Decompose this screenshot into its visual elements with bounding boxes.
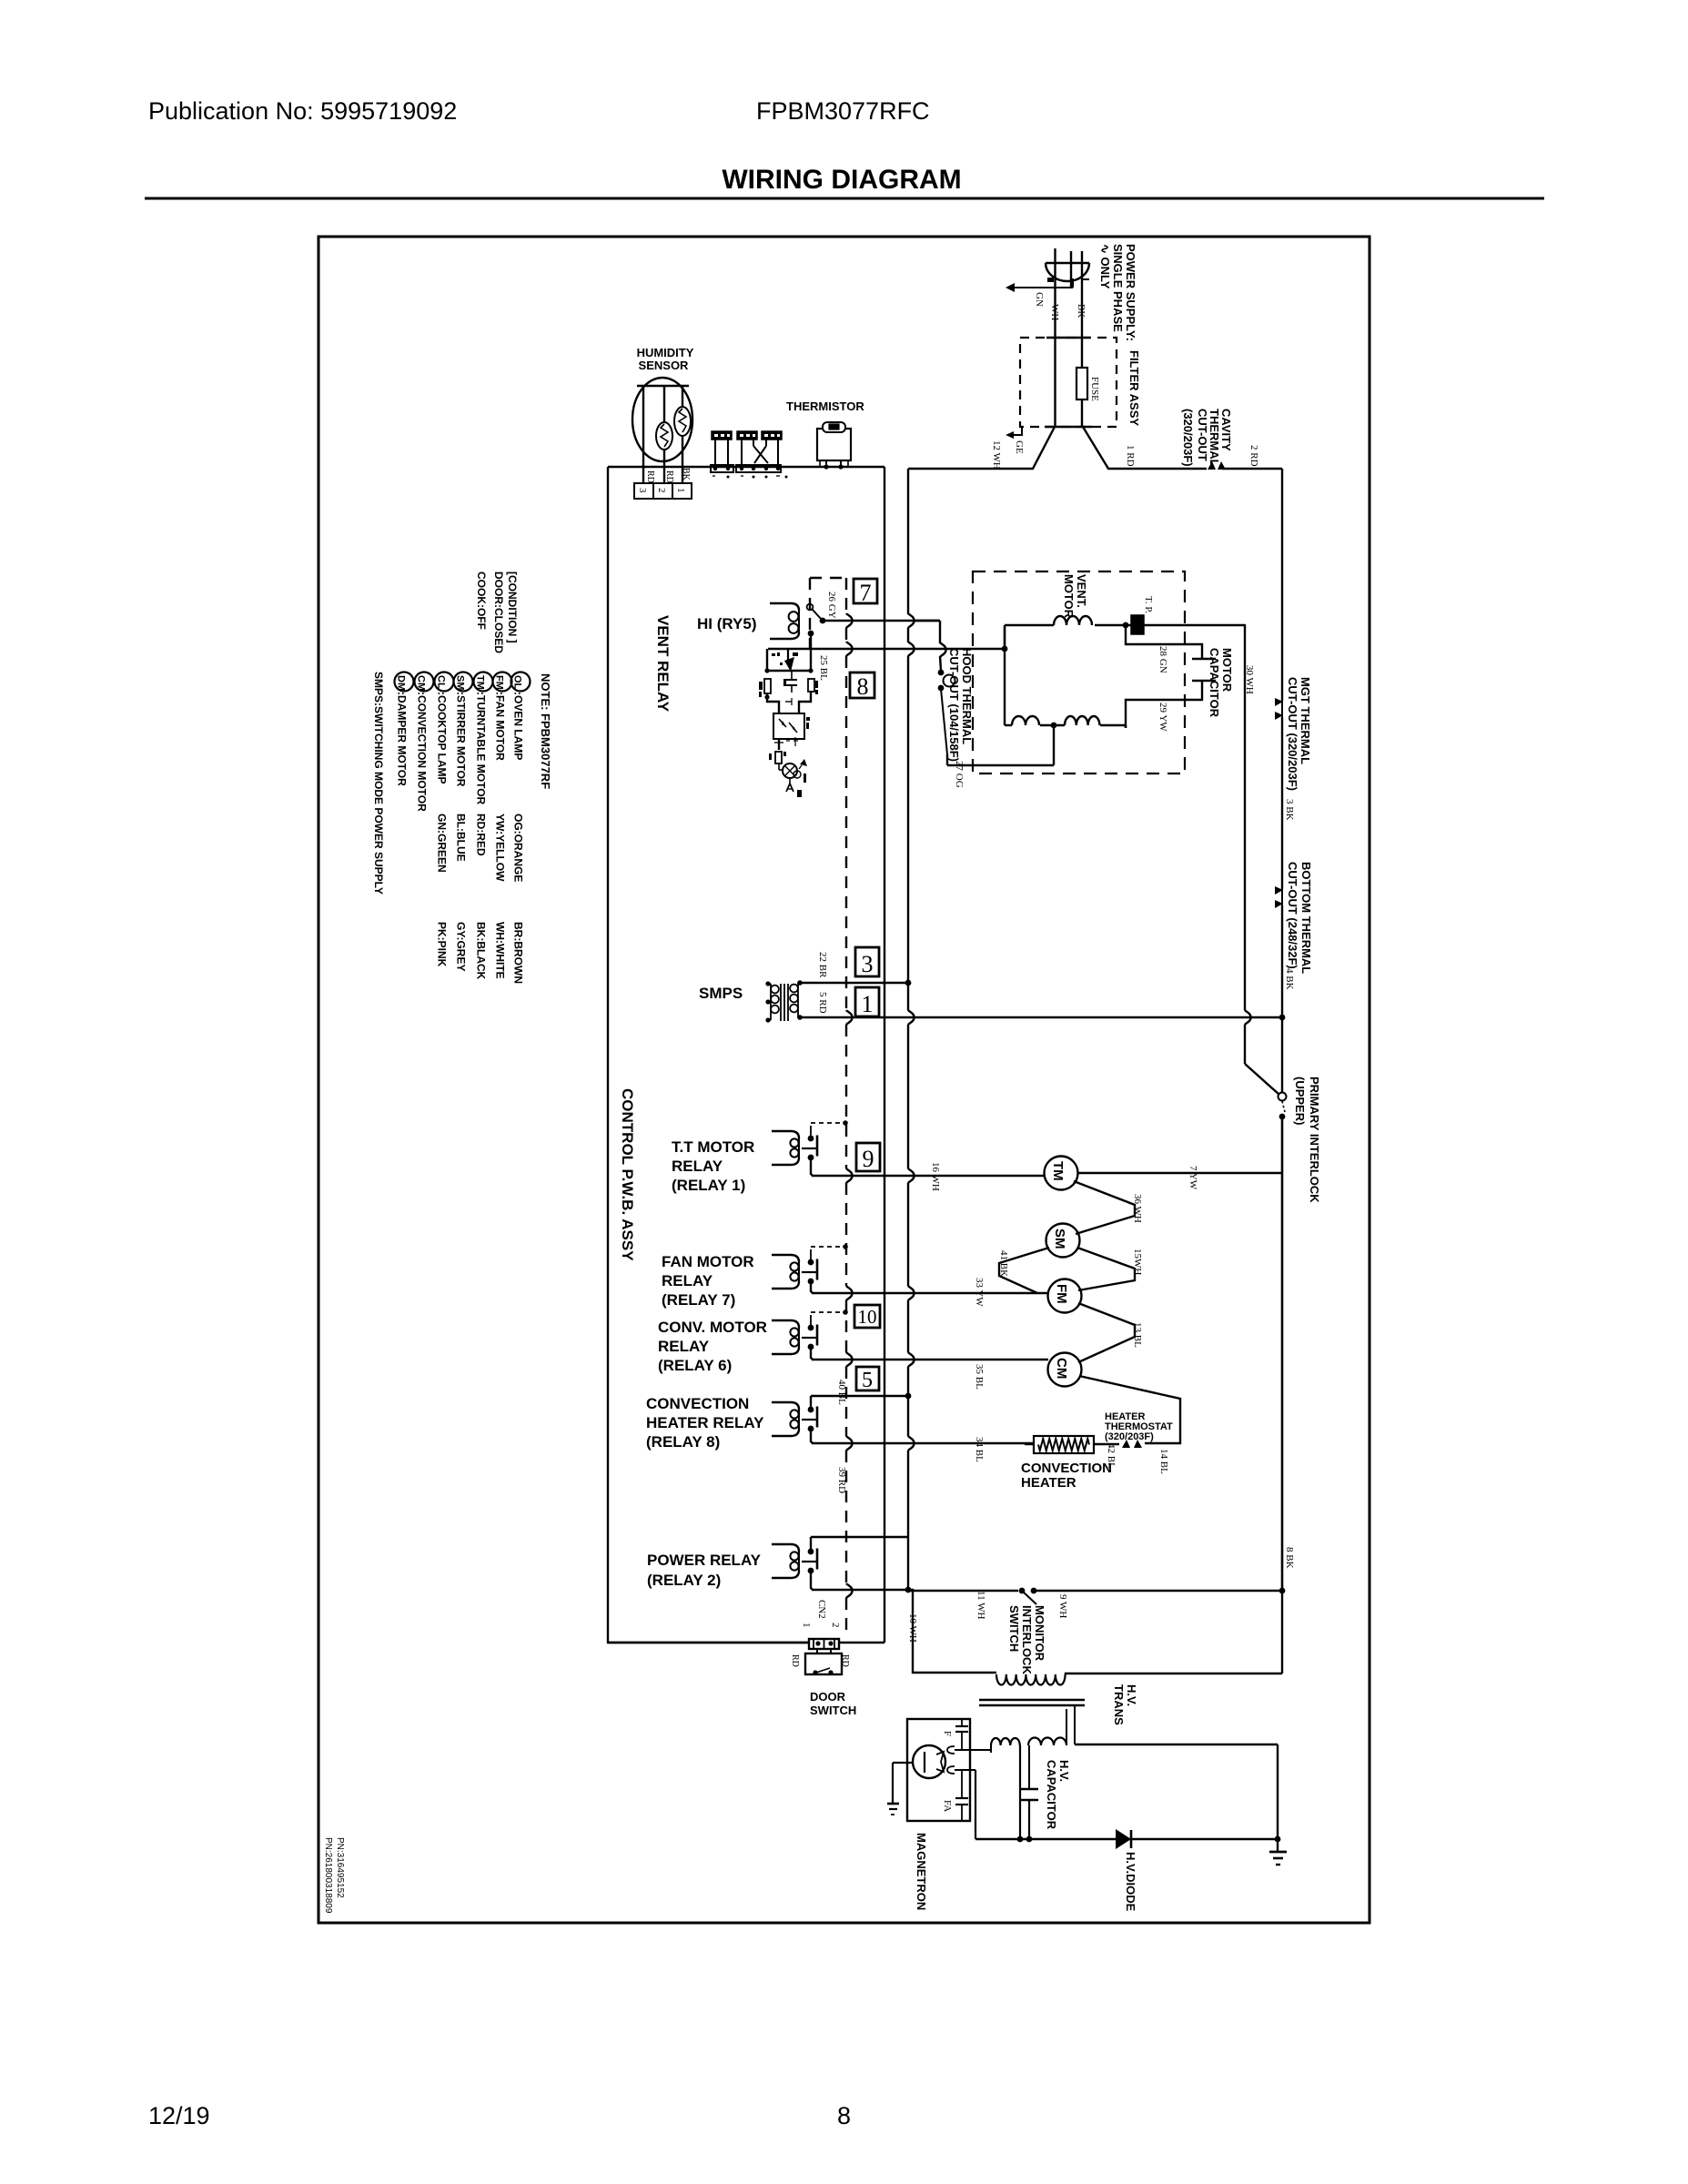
- label CUT-OUT (104/158F): [947, 648, 961, 762]
- svg-text:(RELAY 8): (RELAY 8): [646, 1433, 720, 1451]
- label MONITOR: [1033, 1605, 1046, 1662]
- svg-text:22 BR: 22 BR: [817, 952, 828, 978]
- svg-text:PRIMARY INTERLOCK: PRIMARY INTERLOCK: [1308, 1077, 1321, 1203]
- resistor R1: [759, 679, 771, 697]
- svg-text:10: 10: [858, 1306, 877, 1328]
- svg-text:∿ ONLY: ∿ ONLY: [1098, 244, 1112, 289]
- wire TP to 30WH corner: [1144, 624, 1245, 626]
- wire 1 RD from filter: [1083, 427, 1207, 469]
- label pin 2: [656, 488, 667, 493]
- svg-text:8: 8: [857, 673, 869, 700]
- primary interlock blade: [1282, 1101, 1285, 1112]
- relay RY2 power relay: [772, 1537, 817, 1590]
- footer page number 8: [837, 2102, 851, 2129]
- label HEATER THERMOSTAT (320/203F): [1105, 1411, 1173, 1442]
- svg-text:CUT-OUT (104/158F): CUT-OUT (104/158F): [947, 648, 961, 762]
- humidity sensor connector 3-2-1: [634, 483, 692, 499]
- vent motor left wire: [1004, 627, 1006, 725]
- svg-text:SM: SM: [455, 675, 466, 691]
- svg-text::DAMPER MOTOR: :DAMPER MOTOR: [396, 692, 409, 786]
- connector plug CN-B: [737, 431, 757, 465]
- label FUSE: [1089, 377, 1100, 401]
- humidity sensor wire 2: [663, 386, 665, 483]
- right rail wire lower: [1281, 1117, 1284, 1591]
- label 34 BL: [974, 1437, 985, 1462]
- relay RY7 fan motor relay: [772, 1247, 817, 1293]
- label H.V. CAPACITOR: [1045, 1760, 1071, 1830]
- label GE: [1014, 440, 1025, 454]
- label RD left: [790, 1654, 800, 1667]
- svg-text:CM: CM: [416, 675, 427, 691]
- svg-text:YW:YELLOW: YW:YELLOW: [494, 814, 507, 882]
- svg-text:BL:BLUE: BL:BLUE: [455, 814, 468, 862]
- right rail wire mid: [1281, 717, 1283, 889]
- label CN2 pin 1: [801, 1623, 812, 1628]
- magnetron filament wire bottom: [955, 1770, 975, 1839]
- driver top left branch: [766, 649, 768, 671]
- svg-text:4 BK: 4 BK: [1284, 968, 1295, 990]
- wire 16 WH: [812, 1175, 1045, 1177]
- HV secondary winding: [1028, 1709, 1066, 1789]
- label pin 3: [637, 488, 648, 493]
- driver misc pad: [797, 773, 806, 797]
- svg-text:2: 2: [656, 488, 667, 493]
- connector plug CN-A: [711, 431, 733, 479]
- svg-text::TURNTABLE MOTOR: :TURNTABLE MOTOR: [475, 692, 488, 805]
- vent motor top wire: [1005, 625, 1054, 627]
- label (320/203F): [1181, 409, 1195, 467]
- svg-text:GN:GREEN: GN:GREEN: [436, 814, 449, 873]
- label GN: [1034, 292, 1045, 307]
- label CONV. MOTOR RELAY (RELAY 6): [658, 1319, 767, 1374]
- svg-text:30 WH: 30 WH: [1244, 665, 1255, 694]
- svg-text:9: 9: [863, 1146, 874, 1172]
- humidity sensor wire 3: [642, 386, 644, 483]
- monitor interlock contacts: [1019, 1588, 1037, 1594]
- svg-text:SM: SM: [1052, 1228, 1067, 1249]
- legend row DM damper motor: [395, 672, 414, 787]
- label CAVITY: [1219, 409, 1233, 451]
- label CONVECTION HEATER RELAY (RELAY 8): [646, 1395, 764, 1451]
- svg-text:RD: RD: [840, 1654, 850, 1667]
- svg-text:12/19: 12/19: [148, 2102, 210, 2129]
- svg-text:VENT.: VENT.: [1075, 574, 1088, 608]
- RY1 dashed control line: [811, 1120, 848, 1126]
- heater thermostat symbol: [1122, 1440, 1142, 1448]
- motor CM convection: [1048, 1353, 1082, 1387]
- magnetron box: [907, 1719, 970, 1821]
- svg-text:H.V.DIODE: H.V.DIODE: [1124, 1852, 1137, 1912]
- legend row CM convection motor: [415, 672, 434, 813]
- label (UPPER): [1293, 1077, 1307, 1125]
- MGT thermal cut-out symbol: [1275, 698, 1283, 720]
- label RD wire 2: [664, 470, 674, 483]
- label 5 RD: [817, 992, 828, 1014]
- svg-text:POWER SUPPLY:: POWER SUPPLY:: [1124, 244, 1137, 341]
- label MOTOR CAPACITOR: [1208, 648, 1234, 718]
- label CUT-OUT (248/32F): [1286, 862, 1299, 969]
- label CONTROL P.W.B. ASSY: [619, 1088, 636, 1261]
- label 2 RD: [1248, 445, 1259, 467]
- motor SM stirrer: [1046, 1224, 1080, 1258]
- svg-text:CONVECTION: CONVECTION: [1021, 1461, 1112, 1476]
- label SENSOR: [639, 359, 690, 372]
- wire 41 BK SM to FM feed: [999, 1248, 1049, 1293]
- humidity sensor top chord: [637, 385, 689, 387]
- svg-text:2: 2: [830, 1623, 841, 1628]
- footer date 12/19: [148, 2102, 210, 2129]
- HV transformer primary: [996, 1673, 1282, 1684]
- RY6 dashed control line: [811, 1309, 848, 1315]
- wire 30 WH diagonal to interlock: [1245, 1064, 1279, 1095]
- svg-text:FILTER ASSY: FILTER ASSY: [1127, 350, 1141, 426]
- connector strip B-C: [736, 465, 788, 479]
- node SMPS 22BR to rail: [905, 980, 912, 986]
- svg-text:7 YW: 7 YW: [1188, 1166, 1198, 1190]
- svg-text::CONVECTION MOTOR: :CONVECTION MOTOR: [416, 692, 429, 812]
- wire CN2 pin1 run: [608, 1642, 809, 1643]
- hood cutout blade: [941, 689, 947, 765]
- thermal protector T.P.: [1131, 615, 1144, 634]
- svg-text:(RELAY 7): (RELAY 7): [662, 1291, 735, 1309]
- label MGT THERMAL: [1299, 677, 1312, 764]
- label SMPS note: [372, 672, 385, 895]
- svg-text:41 BK: 41 BK: [998, 1250, 1009, 1277]
- label 8 BK: [1284, 1547, 1295, 1569]
- wire relay8 top to 40BL node: [811, 1395, 908, 1397]
- HI relay blade: [812, 609, 822, 620]
- label CUT-OUT: [1196, 409, 1209, 461]
- label PRIMARY INTERLOCK: [1308, 1077, 1321, 1203]
- svg-text:FM: FM: [1054, 1284, 1069, 1304]
- svg-text:(RELAY 2): (RELAY 2): [647, 1572, 721, 1589]
- svg-text:THERMISTOR: THERMISTOR: [786, 399, 864, 413]
- monitor interlock blade: [1023, 1592, 1036, 1604]
- svg-text:FM: FM: [494, 675, 505, 690]
- lamp arrow: [799, 759, 807, 769]
- bottom thermal cut-out symbol: [1275, 886, 1283, 908]
- svg-text:RELAY: RELAY: [672, 1158, 723, 1175]
- wire 40BL/39RD rail: [908, 469, 915, 983]
- label F: [942, 1731, 953, 1736]
- svg-text:RD:RED: RD:RED: [475, 814, 488, 856]
- driver left wire: [764, 693, 779, 713]
- svg-text::COOKTOP LAMP: :COOKTOP LAMP: [436, 692, 449, 784]
- svg-text:CUT-OUT (320/203F): CUT-OUT (320/203F): [1286, 677, 1299, 791]
- svg-text:RD: RD: [645, 470, 655, 483]
- node right rail / 5RD wire: [1279, 1015, 1286, 1021]
- svg-text:BK: BK: [681, 468, 691, 481]
- svg-text:27 OG: 27 OG: [954, 761, 965, 788]
- HI relay coil: [770, 603, 799, 639]
- label H.V.DIODE: [1124, 1852, 1137, 1912]
- hood cutout body circle: [944, 675, 955, 687]
- wire power relay top to rail: [811, 1536, 908, 1538]
- label CUT-OUT (320/203F): [1286, 677, 1299, 791]
- wire 10/11 WH lower: [812, 1589, 908, 1591]
- wire 39 RD rail segment: [908, 1396, 915, 1590]
- svg-text:Publication No: 5995719092: Publication No: 5995719092: [148, 97, 457, 125]
- label 1 RD: [1125, 445, 1136, 467]
- label BOTTOM THERMAL: [1299, 862, 1313, 974]
- hood cutout lower terminal: [938, 685, 945, 692]
- label CN2: [816, 1600, 827, 1619]
- power supply plug: [1046, 248, 1089, 289]
- wire 26 GY relay7 output: [823, 620, 940, 622]
- svg-text:TM: TM: [1050, 1161, 1066, 1181]
- wire rail below SMPS: [908, 983, 915, 1396]
- label H.V. TRANS: [1112, 1684, 1138, 1725]
- svg-text:PN:261800318809: PN:261800318809: [323, 1837, 333, 1914]
- wire 34 BL: [812, 1442, 1034, 1444]
- svg-text:29 YW: 29 YW: [1157, 703, 1168, 732]
- svg-text:VENT RELAY: VENT RELAY: [654, 615, 672, 713]
- terminal F feedthrough: [955, 1719, 968, 1750]
- label BK: [1076, 304, 1087, 318]
- label 39 RD: [836, 1467, 847, 1493]
- convection heater element: [1025, 1436, 1119, 1453]
- wire 2 RD to right rail: [1223, 468, 1282, 470]
- label THERMAL: [1208, 409, 1221, 467]
- svg-text:33 YW: 33 YW: [974, 1278, 985, 1307]
- svg-text:SMPS: SMPS: [699, 985, 743, 1002]
- node relay8 wire / vent motor: [940, 627, 1007, 652]
- label NOTE: FPBM3077RF: [539, 673, 552, 789]
- label 15WH: [1132, 1249, 1143, 1275]
- svg-text:FUSE: FUSE: [1089, 377, 1100, 401]
- connector bus dashed line: [846, 578, 853, 1638]
- wire 11 WH: [908, 1590, 1018, 1592]
- right rail wire to node: [1281, 905, 1283, 1017]
- label [CONDITION]: [506, 571, 519, 643]
- motor TM turntable: [1045, 1157, 1078, 1190]
- vent motor main winding: [1054, 616, 1092, 625]
- label 11 WH: [975, 1591, 986, 1620]
- svg-text:10 WH: 10 WH: [907, 1613, 918, 1643]
- connector box 3: [855, 947, 879, 977]
- svg-text:12 WH: 12 WH: [991, 440, 1002, 470]
- label SWITCH: [1007, 1605, 1021, 1652]
- relay RY8 convection heater relay: [772, 1396, 817, 1443]
- svg-text:HUMIDITY: HUMIDITY: [637, 346, 694, 359]
- wire 9 WH: [1034, 1590, 1282, 1592]
- svg-text:SWITCH: SWITCH: [1007, 1605, 1021, 1652]
- HV filament winding: [991, 1738, 1020, 1839]
- svg-text:1: 1: [801, 1623, 812, 1628]
- vent motor start winding 2: [1065, 716, 1099, 725]
- SMPS transformer secondary: [790, 980, 803, 1020]
- label 10 WH: [907, 1613, 918, 1643]
- svg-text:1: 1: [675, 488, 686, 493]
- svg-text:36 WH: 36 WH: [1132, 1194, 1143, 1223]
- svg-text:FA: FA: [942, 1800, 953, 1812]
- label 27 OG: [954, 761, 965, 788]
- connector box 10: [854, 1305, 880, 1328]
- label 28 GN: [1157, 646, 1168, 673]
- svg-text:GN: GN: [1034, 292, 1045, 307]
- label 9 WH: [1057, 1594, 1068, 1618]
- wire 30 WH vertical: [1245, 624, 1251, 1064]
- svg-text:GE: GE: [1014, 440, 1025, 454]
- label MAGNETRON: [915, 1833, 928, 1910]
- indicator lamp NE1: [783, 763, 801, 778]
- node 10 WH junction: [905, 1587, 912, 1593]
- svg-text:INTERLOCK: INTERLOCK: [1020, 1605, 1034, 1674]
- connector plug CN-C: [762, 431, 782, 465]
- filter internal wire BK: [1081, 280, 1083, 427]
- label VENT. MOTOR: [1062, 574, 1088, 619]
- svg-text:8: 8: [837, 2102, 851, 2129]
- label FA: [942, 1800, 953, 1812]
- svg-text:34 BL: 34 BL: [974, 1437, 985, 1462]
- label speck R numbers: [772, 652, 786, 686]
- title rule: [145, 197, 1544, 200]
- vent motor bottom wire right: [1100, 725, 1126, 728]
- label FAN MOTOR RELAY (RELAY 7): [662, 1253, 754, 1309]
- svg-text:(RELAY 6): (RELAY 6): [658, 1357, 732, 1374]
- door switch leads: [817, 1648, 831, 1653]
- label 13 BL: [1132, 1322, 1143, 1348]
- svg-text:RELAY: RELAY: [658, 1338, 710, 1355]
- label DOOR SWITCH: [810, 1690, 856, 1717]
- svg-text:15WH: 15WH: [1132, 1249, 1143, 1275]
- svg-text:BK:BLACK: BK:BLACK: [475, 922, 488, 980]
- svg-text:FPBM3077RFC: FPBM3077RFC: [756, 97, 930, 125]
- thermistor leads: [820, 460, 848, 470]
- motor capacitor plates: [1192, 659, 1216, 681]
- svg-text:11 WH: 11 WH: [975, 1591, 986, 1620]
- svg-text:MOTOR: MOTOR: [1062, 574, 1076, 619]
- label CONVECTION HEATER: [1021, 1461, 1112, 1491]
- magnetron filament wire top: [955, 1750, 991, 1753]
- right rail to HV transformer: [1281, 1591, 1283, 1673]
- svg-text:MGT THERMAL: MGT THERMAL: [1299, 677, 1312, 764]
- svg-text:9 WH: 9 WH: [1057, 1594, 1068, 1618]
- svg-text:25 BL: 25 BL: [818, 655, 829, 681]
- humidity sensor element R2: [674, 407, 691, 436]
- wire 33 YW: [812, 1292, 1048, 1294]
- svg-text:26 GY: 26 GY: [826, 591, 837, 619]
- svg-text:FAN MOTOR: FAN MOTOR: [662, 1253, 754, 1270]
- driver lower wire: [774, 737, 798, 750]
- driver top rail: [764, 668, 813, 672]
- control board outline: [608, 467, 884, 1643]
- ground chassis right: [1269, 1839, 1287, 1865]
- svg-text:CUT-OUT: CUT-OUT: [1196, 409, 1209, 461]
- svg-text:SENSOR: SENSOR: [639, 359, 690, 372]
- label 41 BK: [998, 1250, 1009, 1277]
- label DOOR:CLOSED: [492, 571, 505, 653]
- thermistor body: [817, 422, 851, 460]
- magnetron ground: [887, 1763, 899, 1815]
- crossed wires X: [753, 446, 768, 463]
- connector box 1: [855, 987, 879, 1017]
- svg-text:HEATER RELAY: HEATER RELAY: [646, 1414, 764, 1431]
- svg-text:RD: RD: [790, 1654, 800, 1667]
- svg-text:(UPPER): (UPPER): [1293, 1077, 1307, 1125]
- svg-text:PK:PINK: PK:PINK: [436, 922, 449, 967]
- label 12 WH: [991, 440, 1002, 470]
- legend row CL cooktop lamp: [435, 672, 454, 967]
- HV bottom wire: [975, 1836, 1280, 1843]
- HI relay contact node: [820, 618, 826, 624]
- svg-text:T. P.: T. P.: [1143, 596, 1154, 613]
- legend row OL oven lamp: [511, 672, 531, 985]
- wire GN with arrow: [1006, 278, 1073, 292]
- vent motor bottom wire left: [1005, 724, 1012, 726]
- svg-text:SMPS:SWITCHING MODE POWER SUPP: SMPS:SWITCHING MODE POWER SUPPLY: [372, 672, 385, 895]
- diagram border frame: [318, 237, 1370, 1923]
- svg-text:3 BK: 3 BK: [1284, 799, 1295, 821]
- label 40 BL: [836, 1380, 847, 1405]
- label 22 BR: [817, 952, 828, 978]
- label RD wire 3: [645, 470, 655, 483]
- HI relay dashed box: [810, 578, 845, 652]
- wire 7 YW: [1077, 1172, 1282, 1174]
- svg-text:DM: DM: [396, 675, 407, 691]
- wire relay7 output to hood cutout: [914, 621, 946, 671]
- svg-text:CM: CM: [1054, 1358, 1069, 1379]
- svg-text:RELAY: RELAY: [662, 1272, 713, 1289]
- svg-text:35 BL: 35 BL: [974, 1364, 985, 1390]
- page header model number: [756, 97, 930, 125]
- wire 15WH SM to FM: [1077, 1248, 1135, 1290]
- right rail wire upper: [1281, 469, 1283, 701]
- filter assy dashed box: [1020, 338, 1117, 427]
- label CN2 pin 2: [830, 1623, 841, 1628]
- label 42 BL: [1106, 1443, 1117, 1469]
- capacitor C1: [786, 672, 797, 693]
- vent motor bottom wire mid: [1040, 724, 1065, 726]
- svg-text:RD: RD: [664, 470, 674, 483]
- label 14 BL: [1158, 1449, 1169, 1474]
- label RD right: [840, 1654, 850, 1667]
- HI relay lower contact: [808, 631, 814, 649]
- label POWER RELAY (RELAY 2): [647, 1552, 762, 1589]
- label 36 WH: [1132, 1194, 1143, 1223]
- humidity sensor wire 1: [682, 386, 683, 483]
- HI relay pivot: [807, 604, 814, 611]
- label pin 1: [675, 488, 686, 493]
- svg-text:T.T MOTOR: T.T MOTOR: [672, 1138, 754, 1156]
- node right rail / 9WH: [1279, 1588, 1286, 1594]
- wire 12 WH from filter: [908, 427, 1055, 469]
- RY7 dashed control line: [811, 1244, 848, 1249]
- driver lamp wire: [779, 769, 783, 771]
- label 35 BL: [974, 1364, 985, 1390]
- svg-text:1: 1: [862, 991, 874, 1017]
- label ~ ONLY: [1098, 244, 1112, 289]
- svg-text:CONV. MOTOR: CONV. MOTOR: [658, 1319, 767, 1336]
- primary interlock upper contact: [1279, 1093, 1287, 1101]
- svg-text:2 RD: 2 RD: [1248, 445, 1259, 467]
- humidity sensor element R1: [656, 422, 672, 450]
- svg-text:H.V.: H.V.: [1125, 1684, 1138, 1706]
- svg-text:HOOD THERMAL: HOOD THERMAL: [960, 648, 974, 744]
- label FILTER ASSY: [1127, 350, 1141, 426]
- svg-text:H.V.: H.V.: [1057, 1760, 1071, 1782]
- svg-text::STIRRER MOTOR: :STIRRER MOTOR: [455, 692, 468, 787]
- svg-text:3: 3: [637, 488, 648, 493]
- right rail wire to interlock: [1281, 1017, 1283, 1092]
- label 29 YW: [1157, 703, 1168, 732]
- svg-text::OVEN LAMP: :OVEN LAMP: [512, 692, 525, 760]
- HV ground return wire: [1075, 1705, 1278, 1839]
- door switch body: [805, 1653, 842, 1674]
- label 33 YW: [974, 1278, 985, 1307]
- node start windings junction: [1051, 723, 1057, 729]
- svg-text:HEATER: HEATER: [1021, 1475, 1076, 1491]
